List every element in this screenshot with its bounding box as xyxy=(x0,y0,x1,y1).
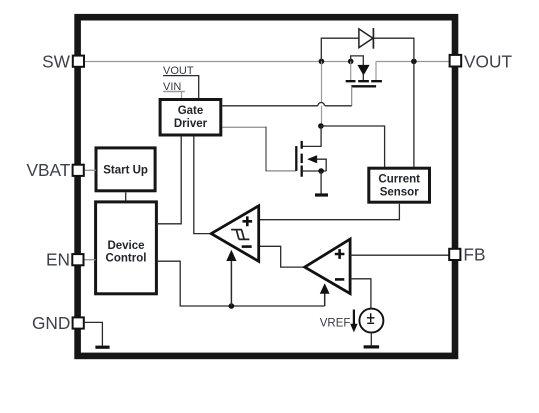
transistor Q2 NMOS xyxy=(296,141,326,177)
pin pad FB xyxy=(449,249,460,260)
wire SW vertical to NMOS drain xyxy=(321,61,323,126)
block Start Up xyxy=(96,148,155,191)
label GND xyxy=(32,313,70,333)
label SW xyxy=(42,52,71,72)
wire GND pin to ground xyxy=(85,322,103,345)
svg-text:VBAT: VBAT xyxy=(26,160,70,180)
wire comparator2 plus input to FB xyxy=(350,254,449,256)
svg-text:EN: EN xyxy=(46,250,70,270)
pin pad VOUT xyxy=(450,55,462,67)
svg-text:Control: Control xyxy=(106,252,147,264)
svg-text:Current: Current xyxy=(378,174,420,186)
wire Q1 gate lead xyxy=(351,86,353,106)
node control line junction xyxy=(229,303,235,309)
label VBAT xyxy=(26,160,70,180)
svg-text:VREF: VREF xyxy=(320,318,351,330)
transistor Q1 PMOS channel and gate xyxy=(346,81,382,86)
svg-text:Gate: Gate xyxy=(178,105,204,117)
pin pad EN xyxy=(72,254,83,265)
wire PMOS body-diode staple xyxy=(351,56,364,66)
svg-text:FB: FB xyxy=(463,244,485,264)
label VIN above gate driver xyxy=(163,81,185,100)
wire comparator2 minus input to VREF xyxy=(350,279,371,309)
wire VBAT pin to start up xyxy=(85,169,96,171)
wire current sensor output to comparator1 plus input xyxy=(259,204,400,220)
op-amp U2 error comparator xyxy=(305,239,350,294)
pin pad GND xyxy=(73,317,84,328)
block Current Sensor xyxy=(369,168,430,202)
label VOUT above gate driver xyxy=(163,65,199,100)
label VREF xyxy=(320,318,351,330)
node VOUT junction xyxy=(411,59,417,65)
ground at GND pin xyxy=(95,346,109,349)
IC boundary box xyxy=(78,17,455,356)
wire PMOS source lead xyxy=(350,61,352,81)
wire comparator1 output to gate driver xyxy=(194,137,211,234)
wire start up to device control xyxy=(125,192,127,202)
wire junction to current sensor input xyxy=(321,126,385,168)
label EN xyxy=(46,250,70,270)
label VOUT xyxy=(464,51,512,71)
svg-text:VOUT: VOUT xyxy=(464,51,512,71)
wire diode branch xyxy=(321,38,414,61)
svg-text:Driver: Driver xyxy=(174,118,208,130)
svg-text:Sensor: Sensor xyxy=(380,187,420,199)
wire SW net horizontal xyxy=(85,61,449,63)
wire VOUT node to current sensor input xyxy=(413,61,415,168)
wire gate driver to Q1 gate with crossover hop xyxy=(222,103,351,106)
block Device Control xyxy=(96,202,157,294)
node SW-diode junction xyxy=(319,59,325,65)
arrow VREF current direction xyxy=(350,310,357,333)
wire PMOS drain lead xyxy=(375,61,377,81)
svg-text:Start Up: Start Up xyxy=(103,165,148,177)
pin pad VBAT xyxy=(73,165,84,176)
arrow enable into comparator2 xyxy=(320,283,330,306)
svg-text:SW: SW xyxy=(42,52,71,72)
wire NMOS drain stub xyxy=(302,126,321,146)
block Gate Driver xyxy=(160,100,221,136)
diode D1 xyxy=(359,28,374,49)
voltage source VREF xyxy=(359,309,383,333)
wire control line from device control xyxy=(158,261,325,306)
body diode of Q1 xyxy=(358,65,369,81)
svg-text:GND: GND xyxy=(32,313,70,333)
pin pad SW xyxy=(73,56,84,67)
label FB xyxy=(463,244,485,264)
node PMOS source junction xyxy=(348,59,354,65)
wire EN pin to device control xyxy=(84,259,96,261)
ground under VREF source xyxy=(364,332,380,347)
op-amp U1 hysteretic comparator xyxy=(211,206,259,261)
wire comparator1 minus input from comparator2 output xyxy=(259,246,305,267)
arrow enable into comparator1 xyxy=(226,250,236,306)
node NMOS source junction xyxy=(318,168,324,174)
node NMOS drain junction xyxy=(318,123,324,129)
wire device control to gate driver xyxy=(158,137,181,224)
svg-text:Device: Device xyxy=(107,240,144,252)
wire gate driver to NMOS gate xyxy=(222,127,296,172)
ground under NMOS xyxy=(315,171,328,195)
